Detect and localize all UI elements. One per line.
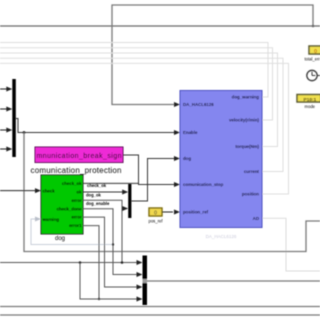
wire: dog_enable output (branch to small mux and bottom mux) [83,200,122,263]
svg-text:ok: ok [76,190,82,195]
junction on check_done vertical for warning loop [112,243,114,245]
mux M2 (small bar near green block) [128,184,131,218]
faint loop wire: position output [0,63,289,194]
faint loop wire: torque output [0,53,278,147]
wire: M2 output up to dog port of blue block [131,159,176,202]
svg-text:mnunication_break_sign: mnunication_break_sign [37,153,122,160]
junction at (313,26) [312,25,315,28]
svg-text:check_ok: check_ok [87,183,107,188]
svg-text:check: check [43,188,56,193]
svg-text:total_err: total_err [305,57,320,62]
wire: ok output into small mux [83,191,124,193]
wire: M3 output to right edge [147,280,320,282]
wire: error1 output down joining input 4 line [83,226,99,299]
svg-text:error: error [71,198,81,203]
faint wire: warning feedback loop [31,219,113,245]
wire: bottom bus line 1 [0,306,320,308]
svg-text:dog_ok: dog_ok [86,193,102,198]
wire: bottom bus line 2 [0,314,320,316]
svg-text:torque(Nm): torque(Nm) [235,144,259,149]
wire into M1 input 4 [0,148,8,150]
faint loop wire: velocity output [0,48,273,120]
wire: top horizontal bus [0,25,320,27]
svg-text:current: current [244,169,260,174]
faint loop wire: dog_warning output [0,43,268,98]
svg-text:dog: dog [55,236,65,242]
wire: M1 output to Enable port of blue block [16,119,177,133]
svg-text:0: 0 [314,49,317,55]
display: mode [297,95,320,103]
svg-text:AD: AD [253,216,259,221]
svg-text:Enable: Enable [183,130,198,135]
arrowhead into port 1 [174,102,180,107]
junction on Enable wire [23,131,26,134]
wire: magenta block output to comunication_stop port [123,155,177,185]
junction dots on that line [79,261,82,264]
svg-text:DA_HACL6126: DA_HACL6126 [183,102,214,107]
faint wire: AD output to right edge [262,218,320,271]
svg-text:dog_enable: dog_enable [86,201,110,206]
faint loop wire: current output [0,58,283,171]
svg-text:warning: warning [42,217,60,222]
block: dog (green subsystem) [41,175,83,234]
svg-text:mode: mode [305,104,316,109]
svg-text:velocity(r/min): velocity(r/min) [229,118,260,123]
wire into M1 input 1 [0,88,8,90]
wire: long feedback loop bottom to right edge [24,133,320,252]
svg-text:P10:1: P10:1 [304,97,317,103]
wire: branch down to M3 input 4 [80,263,137,300]
wire: pos_ref to position_ref port [162,211,173,213]
svg-text:comunication_stop: comunication_stop [183,182,224,187]
mux M3 (bottom bar) [143,256,148,306]
svg-text:error1: error1 [69,223,82,228]
wire: long line into M3 input 1 [0,262,137,264]
wire: check_done output down to bottom mux input 2 [83,209,137,275]
svg-text:error: error [71,215,81,220]
svg-text:dog: dog [183,156,191,161]
svg-text:pos_ref: pos_ref [149,219,164,224]
svg-text:comunication_protection: comunication_protection [31,166,122,175]
svg-text:position_ref: position_ref [183,210,209,215]
svg-text:position: position [242,192,259,197]
wire: check_ok output [83,182,139,184]
block: communication_break_sign (magenta) [35,147,123,163]
svg-text:dog_warning: dog_warning [232,95,260,100]
wire into M1 input 2 [0,108,8,110]
mux M1 (left tall bar) [12,79,16,157]
wire into M1 input 3 [0,129,8,131]
svg-text:check_done: check_done [57,206,82,211]
constant: pos_ref [149,208,162,216]
wire: loop from top bus to DA input (port 1 of blue block) [112,5,313,105]
svg-text:check_ok: check_ok [62,181,82,186]
display: total_err [309,46,320,54]
svg-text:0: 0 [154,211,157,217]
svg-text:DA_HACL6126: DA_HACL6126 [206,234,237,239]
wire from clock [317,75,320,77]
wire: check input to green block [0,190,37,192]
block: DA_HACL6126 (big blue subsystem) [180,91,262,228]
wire: error output down to bottom mux input 3 [83,217,137,287]
clock [307,70,317,80]
